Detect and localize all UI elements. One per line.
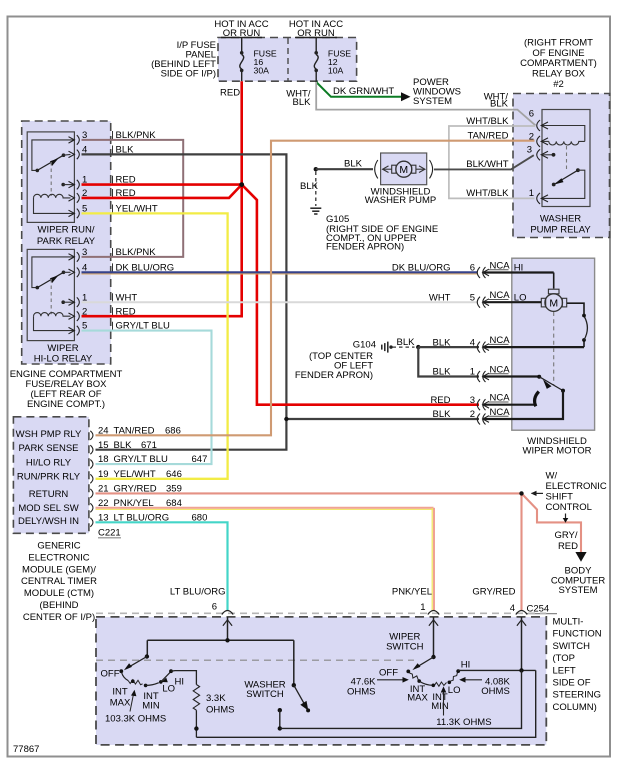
wiper motor M1 symbol [541, 289, 566, 311]
wire BLK G104 to motor pin4 [418, 346, 479, 348]
svg-text:RUN/PRK RLY: RUN/PRK RLY [17, 472, 81, 483]
connector C254 dashed line [96, 612, 546, 614]
svg-text:ELECTRONIC: ELECTRONIC [28, 552, 89, 563]
svg-text:ELECTRONIC: ELECTRONIC [546, 481, 607, 492]
wiper rotary switch (right) [406, 655, 460, 687]
svg-text:5: 5 [470, 292, 475, 303]
fuse 12 10A [314, 38, 351, 83]
wire GRY/LT BLU hi-lo pin5 to GEM 647 [82, 331, 212, 465]
wiper run/park relay pin 5 [69, 204, 158, 219]
svg-text:BLK/WHT: BLK/WHT [466, 159, 508, 170]
svg-text:BLK: BLK [344, 158, 363, 169]
windshield washer pump motor [375, 153, 433, 185]
wire YEL/WHT run-park pin5 to GEM 646 [82, 213, 228, 478]
wire GRY/RED branch to body computer [522, 493, 587, 561]
svg-text:OR RUN: OR RUN [297, 28, 335, 39]
GEM pin 15 [90, 440, 157, 454]
washer pump relay coil [542, 126, 585, 170]
svg-text:LT BLU/ORG: LT BLU/ORG [170, 587, 226, 598]
svg-text:HI/LO RLY: HI/LO RLY [26, 458, 72, 469]
wire BLK/WHT washer pump to relay pin 3 [434, 155, 534, 169]
wire RED run-park pin1 [82, 183, 242, 186]
svg-text:SWITCH: SWITCH [553, 641, 591, 652]
svg-text:BLK: BLK [300, 181, 319, 192]
GEM pin 21 [90, 484, 182, 498]
svg-text:OF ENGINE: OF ENGINE [532, 48, 584, 59]
svg-text:DK BLU/ORG: DK BLU/ORG [392, 263, 451, 274]
svg-text:(RIGHT FROMT: (RIGHT FROMT [524, 37, 593, 48]
I/P fuse panel caption [151, 40, 216, 80]
svg-text:1: 1 [529, 188, 534, 199]
svg-text:W/: W/ [546, 470, 558, 481]
wiper run/park relay pin 2 [69, 188, 136, 203]
svg-text:1: 1 [470, 367, 475, 378]
svg-text:RED: RED [220, 88, 240, 99]
body computer system label [551, 566, 606, 597]
svg-text:11.3K OHMS: 11.3K OHMS [436, 717, 491, 728]
wiper hi-lo relay K2 body [27, 249, 74, 340]
HOT IN ACC OR RUN label (fuse 12) [289, 19, 343, 39]
svg-text:(TOP: (TOP [553, 653, 576, 664]
svg-text:646: 646 [166, 469, 182, 480]
svg-text:MOD SEL SW: MOD SEL SW [18, 503, 78, 514]
svg-text:BLK: BLK [490, 99, 509, 110]
svg-text:OFF: OFF [101, 669, 120, 680]
washer pump relay caption [530, 214, 591, 236]
svg-text:686: 686 [165, 425, 181, 436]
svg-text:GENERIC: GENERIC [37, 541, 80, 552]
svg-text:DK GRN/WHT: DK GRN/WHT [333, 86, 394, 97]
svg-text:PNK/YEL: PNK/YEL [392, 587, 432, 598]
resistor 3.3K [171, 671, 235, 738]
GEM pin 24 [90, 425, 181, 439]
GEM caption [21, 541, 97, 623]
wiper motor park switch [483, 375, 566, 419]
svg-text:OHMS: OHMS [206, 705, 235, 716]
wire DK BLU/ORG hi-lo pin4 to motor pin6 [82, 272, 478, 274]
svg-text:647: 647 [192, 454, 208, 465]
wire RED run-park pin2 [82, 185, 242, 198]
svg-text:RED: RED [430, 395, 450, 406]
svg-text:SIDE OF I/P): SIDE OF I/P) [161, 69, 216, 80]
wire LT BLU/ORG GEM 680 to MFS [96, 522, 228, 610]
GEM dashed box [13, 417, 89, 534]
MFS top rail wire [147, 638, 293, 654]
svg-text:CENTRAL TIMER: CENTRAL TIMER [21, 576, 97, 587]
MFS outer bottom rail [196, 670, 535, 737]
svg-text:PARK SENSE: PARK SENSE [18, 443, 78, 454]
wiper motor armature dashed link [553, 312, 555, 385]
right rotary labels [379, 632, 470, 713]
wire WHT/BLK loop pin1 to pin6 of washer pump relay [449, 126, 535, 198]
connector C221 [98, 528, 121, 539]
svg-text:CONTROL: CONTROL [546, 502, 592, 513]
wire RED from fuse 16 [220, 81, 242, 185]
svg-text:M: M [399, 164, 408, 176]
svg-text:PARK RELAY: PARK RELAY [37, 236, 96, 247]
svg-text:WHT: WHT [429, 292, 451, 303]
wire BLK run-park pin4 / motor pin2 / GEM 671 [82, 154, 480, 449]
svg-text:24: 24 [98, 425, 109, 436]
wiper run/park relay K1 body [27, 132, 74, 223]
I/P fuse panel box [218, 38, 357, 82]
svg-text:MULTI-: MULTI- [553, 617, 584, 628]
svg-text:RED: RED [558, 541, 578, 552]
svg-text:OHMS: OHMS [347, 686, 376, 697]
svg-text:PUMP RELAY: PUMP RELAY [530, 225, 591, 236]
svg-text:WIPER MOTOR: WIPER MOTOR [523, 446, 592, 457]
svg-text:1: 1 [420, 602, 425, 613]
svg-text:BLK: BLK [114, 440, 133, 451]
svg-text:HI: HI [514, 263, 524, 274]
svg-text:77867: 77867 [13, 744, 39, 755]
junction node RED [239, 182, 244, 187]
103.3K leader line [130, 694, 134, 712]
washer pump relay pin 1 [529, 188, 548, 204]
svg-text:4: 4 [470, 337, 475, 348]
wiper run/park relay pin 1 [69, 175, 136, 190]
wiper motor HI feed wire [483, 263, 554, 289]
W/ electronic shift control note [531, 470, 607, 523]
GEM pin 13 [90, 512, 207, 526]
svg-text:MIN: MIN [142, 701, 160, 712]
svg-text:GRY/RED: GRY/RED [472, 587, 515, 598]
svg-text:RETURN: RETURN [29, 489, 69, 500]
motor pin 4 connector [433, 335, 511, 353]
wiper hi-lo relay coil [34, 313, 75, 331]
svg-text:FUNCTION: FUNCTION [553, 629, 602, 640]
11.3K ohms label with arrow [436, 686, 491, 727]
svg-text:6: 6 [212, 602, 217, 613]
svg-text:RELAY BOX: RELAY BOX [532, 69, 586, 80]
wire TAN/RED GEM 686 to washer relay pin2 [96, 141, 535, 436]
MFS inner bottom rail [280, 670, 522, 728]
svg-text:WHT/BLK: WHT/BLK [466, 116, 509, 127]
wire BLK/PNK run-park pin3 to hi-lo pin3 [82, 140, 184, 257]
svg-text:M: M [549, 298, 558, 310]
svg-text:15: 15 [98, 440, 109, 451]
svg-text:MAX: MAX [407, 693, 428, 704]
left rotary labels [101, 669, 185, 725]
junction node GRY/RED [519, 491, 523, 495]
connector C254 [527, 604, 558, 615]
MFS entry connector pin 1 [428, 611, 439, 658]
washer switch [244, 640, 310, 730]
svg-text:LO: LO [162, 683, 175, 694]
svg-text:SHIFT: SHIFT [546, 491, 574, 502]
motor pin 3 connector [430, 393, 510, 411]
wiper hi-lo relay pin 1 [69, 292, 138, 307]
wiper hi-lo relay caption [34, 343, 93, 365]
MFS wire labels above box [170, 587, 516, 615]
washer pump relay pin 2 [529, 132, 548, 147]
fuse 16 30A [240, 38, 277, 82]
washer pump relay pin 3 [527, 145, 548, 161]
svg-text:#2: #2 [553, 79, 564, 90]
wiper hi-lo relay switch [32, 257, 74, 314]
wire GRY/RED GEM 359 to MFS and body computer [96, 493, 522, 610]
svg-text:30A: 30A [254, 66, 270, 76]
wire BLK washer pump left [314, 158, 373, 171]
svg-text:3: 3 [527, 145, 532, 156]
svg-text:C221: C221 [98, 528, 121, 539]
svg-text:LO: LO [448, 685, 461, 696]
GEM pin 18 [90, 454, 207, 468]
washer pump relay dashed box [513, 94, 610, 238]
delay wiper rotary switch (left) [119, 654, 173, 687]
svg-text:SWITCH: SWITCH [246, 689, 284, 700]
svg-text:WSH PMP RLY: WSH PMP RLY [16, 429, 82, 440]
svg-text:WIPER: WIPER [47, 343, 78, 354]
svg-text:2: 2 [470, 409, 475, 420]
wire BLK G104 to motor pin1 [418, 347, 479, 376]
wiper hi-lo relay pin 3 [69, 247, 157, 262]
motor pin 2 connector [433, 407, 511, 425]
svg-text:G104: G104 [353, 339, 376, 350]
svg-text:CENTER OF I/P): CENTER OF I/P) [23, 612, 95, 623]
GEM pin function labels [16, 429, 82, 527]
motor pin 1 connector [433, 365, 511, 383]
engine compartment fuse/relay box (dashed) [22, 121, 111, 364]
svg-text:FENDER APRON): FENDER APRON) [326, 242, 404, 253]
svg-text:6: 6 [470, 263, 475, 274]
svg-text:MODULE (CTM): MODULE (CTM) [24, 588, 94, 599]
svg-text:SWITCH: SWITCH [386, 641, 424, 652]
svg-text:6: 6 [529, 109, 534, 120]
svg-text:BLK: BLK [293, 97, 312, 108]
svg-text:WASHER: WASHER [540, 214, 581, 225]
svg-text:OR RUN: OR RUN [223, 28, 261, 39]
svg-text:WHT/BLK: WHT/BLK [466, 188, 509, 199]
svg-text:19: 19 [98, 469, 109, 480]
wire RED branch to wiper motor pin3 [242, 185, 479, 405]
svg-text:GRY/LT BLU: GRY/LT BLU [114, 454, 169, 465]
wire DK GRN/WHT to power windows [316, 82, 410, 101]
svg-text:OFF: OFF [379, 668, 398, 679]
svg-text:18: 18 [98, 454, 109, 465]
motor pin 5 connector [429, 290, 510, 308]
wiper run/park relay coil [34, 194, 75, 213]
ground G105 [310, 208, 321, 214]
svg-text:SYSTEM: SYSTEM [558, 585, 597, 596]
svg-text:YEL/WHT: YEL/WHT [114, 469, 156, 480]
GEM pin 22 [90, 498, 182, 512]
windshield wiper motor box [512, 258, 595, 430]
svg-text:HI: HI [461, 659, 471, 670]
power windows system label [413, 77, 461, 107]
GEM pin 19 [90, 469, 182, 483]
svg-text:INT: INT [112, 687, 128, 698]
svg-text:ENGINE COMPT.): ENGINE COMPT.) [27, 399, 105, 410]
multi-function switch dashed box [96, 617, 546, 745]
washer pump relay U1 body [542, 110, 590, 207]
MFS entry connector pin 6 [222, 611, 233, 641]
wiper run/park relay pin 3 [69, 130, 157, 145]
svg-text:STEERING: STEERING [553, 690, 602, 701]
svg-text:HI: HI [175, 676, 185, 687]
svg-text:(BEHIND: (BEHIND [39, 600, 78, 611]
svg-text:SYSTEM: SYSTEM [413, 96, 452, 107]
4.08K ohms label with arrow [459, 676, 510, 697]
svg-text:COMPARTMENT): COMPARTMENT) [520, 58, 597, 69]
wire WHT/BLK from fuse 12 to washer pump relay pin 6 [286, 82, 535, 125]
relay box #2 caption [520, 37, 597, 90]
svg-text:LO: LO [514, 292, 527, 303]
wiper hi-lo relay pin 2 [69, 306, 136, 321]
washer pump relay pin 6 [529, 109, 548, 132]
wire PNK/YEL GEM 684 to MFS [96, 508, 435, 611]
wire HI to GRY/RED junction [458, 668, 536, 672]
wiper run/park relay switch [32, 140, 74, 196]
windshield washer pump caption [365, 186, 436, 206]
multi-function switch caption [553, 617, 602, 714]
wire WHT hi-lo pin1 to motor pin5 [82, 301, 478, 303]
svg-text:WIPER RUN/: WIPER RUN/ [38, 225, 95, 236]
motor pin 6 connector [392, 261, 510, 279]
wiper hi-lo relay pin 4 [69, 262, 175, 277]
svg-text:LEFT: LEFT [553, 665, 576, 676]
svg-text:4: 4 [510, 603, 515, 614]
wire BLK dashed to G105 [300, 172, 319, 207]
wire RED main down to hi-lo pin2 [82, 185, 242, 317]
G104 caption [295, 339, 376, 381]
svg-text:10A: 10A [328, 66, 344, 76]
wiper motor LO feed wire [483, 292, 542, 303]
wiper motor ground return wire with brush arc [483, 303, 588, 347]
wiper run/park relay caption [37, 225, 96, 247]
svg-text:BLK: BLK [433, 409, 452, 420]
svg-text:DELY/WSH IN: DELY/WSH IN [18, 516, 79, 527]
HOT IN ACC OR RUN label (fuse 16) [214, 19, 268, 39]
svg-text:MAX: MAX [110, 698, 131, 709]
wiper hi-lo relay pin 5 [69, 321, 171, 336]
G105 caption [326, 214, 438, 253]
svg-text:WASHER PUMP: WASHER PUMP [365, 195, 436, 206]
svg-text:103.3K OHMS: 103.3K OHMS [105, 714, 166, 725]
svg-text:COLUMN): COLUMN) [553, 702, 597, 713]
svg-text:MODULE (GEM)/: MODULE (GEM)/ [22, 564, 96, 575]
svg-text:FENDER APRON): FENDER APRON) [295, 370, 373, 381]
svg-text:3.3K: 3.3K [206, 693, 226, 704]
svg-text:3: 3 [470, 395, 475, 406]
svg-text:BLK: BLK [397, 337, 416, 348]
svg-text:BLK: BLK [433, 337, 452, 348]
svg-text:671: 671 [141, 440, 157, 451]
svg-text:TAN/RED: TAN/RED [114, 425, 155, 436]
svg-text:HI-LO RELAY: HI-LO RELAY [34, 353, 93, 364]
MFS internal dashed divider [96, 659, 414, 661]
svg-text:SIDE OF: SIDE OF [553, 678, 591, 689]
engine compartment box caption [10, 369, 123, 410]
MFS entry connector pin 4 [516, 611, 527, 671]
47.6K ohms label with arrow [347, 677, 409, 698]
svg-text:MIN: MIN [431, 701, 449, 712]
wiper motor caption [523, 436, 592, 457]
svg-text:GRY/: GRY/ [554, 530, 577, 541]
washer pump relay switch [542, 153, 585, 198]
svg-text:OHMS: OHMS [481, 686, 510, 697]
wiper run/park relay pin 4 [69, 145, 135, 160]
ground G104 [382, 337, 421, 352]
svg-text:BLK: BLK [433, 367, 452, 378]
